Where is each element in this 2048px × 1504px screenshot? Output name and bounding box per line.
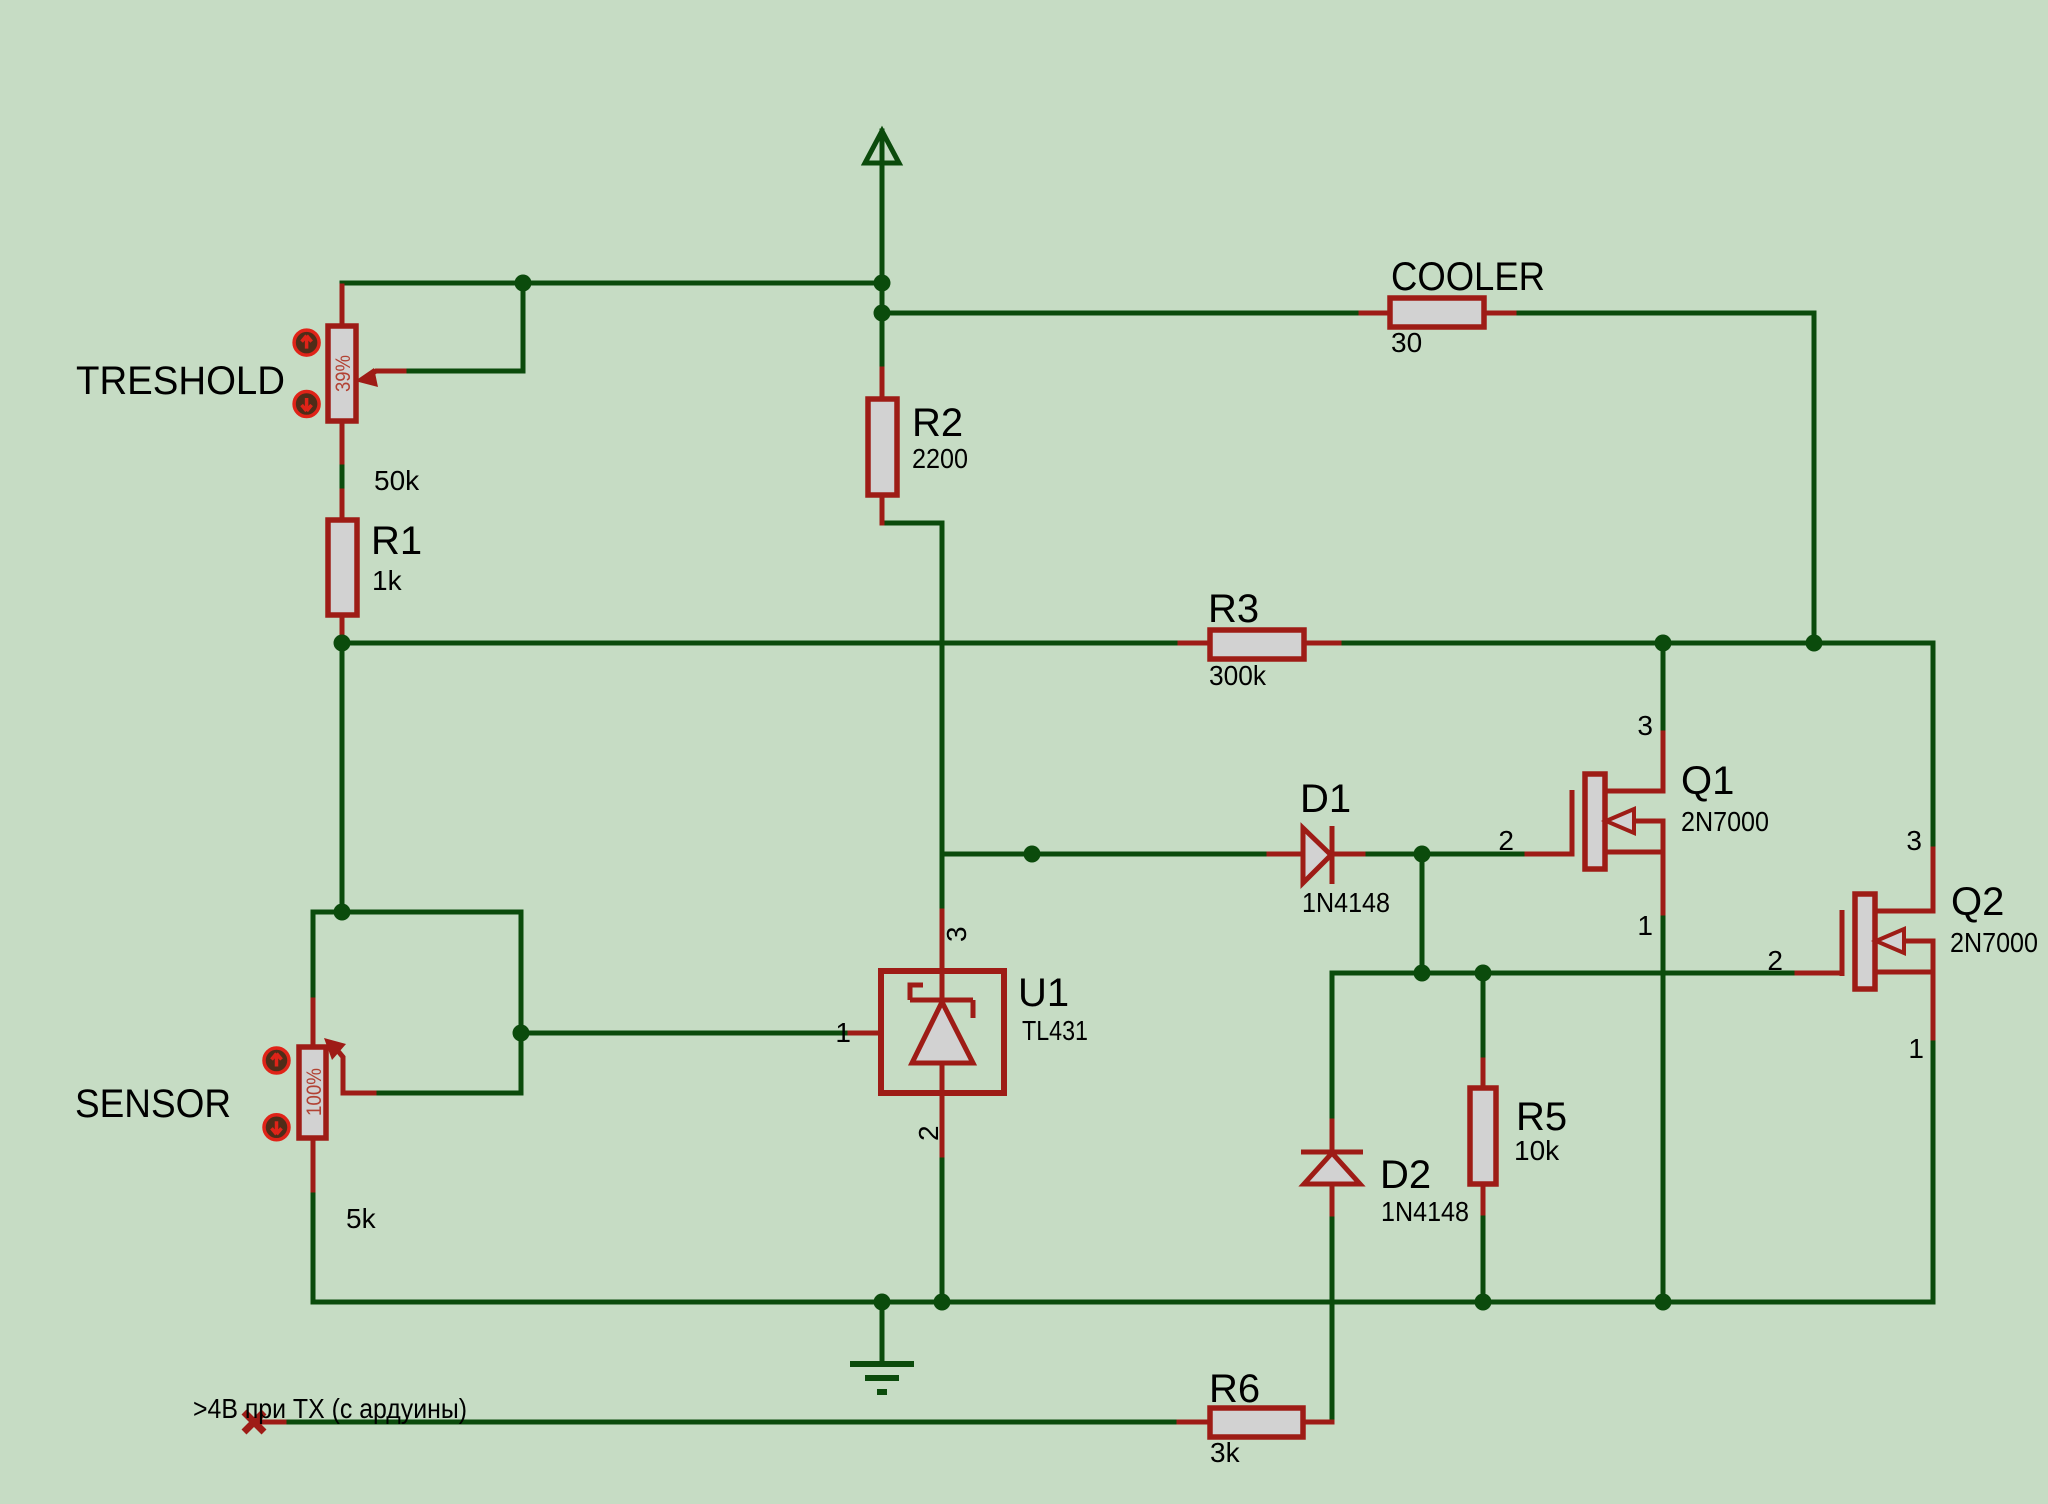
svg-text:R2: R2 [912,401,963,445]
wire U1 pin1 to SENSOR loop [521,1031,850,1036]
svg-text:1: 1 [1637,910,1653,941]
wire D1 cathode down to gate bus [1420,854,1425,973]
wire COOLER right to corner down to R3 bus [1514,313,1814,643]
transistor Q2 2N7000 symbol [1842,894,1904,989]
svg-text:3k: 3k [1210,1437,1241,1468]
junction ground bus / Q1 source [1655,1294,1672,1311]
wire SENSOR loop (top terminal and wiper ring) [313,912,521,1093]
pin stub D2 anode [1330,1184,1335,1214]
wire SENSOR bottom to ground bus [311,1190,316,1302]
pin stub R3 right [1304,641,1339,646]
wire input TX line [284,1420,1179,1425]
wire U1 pin3 branch to D1 anode [942,852,1269,857]
diode D2 1N4148 symbol [1301,1152,1363,1184]
pin stub Q1 gate [1527,852,1572,857]
wire TRESHOLD bottom to R1 top [340,462,345,491]
pin stub TRESHOLD top [340,286,345,326]
pin stub R1 top [340,491,345,520]
svg-text:2: 2 [913,1125,944,1141]
svg-text:2N7000: 2N7000 [1950,927,2038,958]
wire ground bus [313,1300,1933,1305]
pin stub Q1 drain [1604,733,1663,791]
wire from TRESHOLD wiper to top rail [404,283,523,371]
pin stub TRESHOLD bottom [340,421,345,462]
svg-text:100%: 100% [303,1068,326,1116]
junction top rail / power rail [874,275,891,292]
resistor R1 body [328,520,357,615]
resistor R6 body [1210,1408,1303,1437]
ground symbol [850,1364,914,1392]
diode D1 1N4148 symbol [1303,826,1332,884]
svg-text:50k: 50k [374,465,420,496]
pin stub R6 left [1179,1420,1210,1425]
potentiometer RV1 TRESHOLD body [328,326,356,421]
wire top rail from TRESHOLD top to power rail [342,281,882,286]
potentiometer RV2 SENSOR body [299,1047,326,1138]
pin stub Q1 source [1604,821,1663,913]
resistor R2 body [868,399,897,495]
pin stub COOLER right [1484,311,1514,316]
svg-text:U1: U1 [1018,971,1069,1015]
pin stub R5 top [1481,1060,1486,1088]
pin stub SENSOR wiper tail [338,1051,374,1093]
svg-text:3: 3 [1906,825,1922,856]
resistor R3 body [1210,630,1304,659]
pin stub U1 pin3 [940,911,945,971]
svg-text:1k: 1k [372,565,403,596]
svg-text:5k: 5k [346,1203,377,1234]
svg-text:39%: 39% [332,355,355,392]
wire R5 top to gate bus [1481,973,1486,1060]
svg-text:SENSOR: SENSOR [75,1082,231,1126]
pin stub Q1 bulk arrow lead [1634,819,1663,824]
pin stub SENSOR top [311,1000,316,1047]
svg-text:2: 2 [1498,825,1514,856]
pin stub R2 bottom [880,495,885,523]
junction gate bus / R5 top [1475,965,1492,982]
button SENSOR down [264,1115,289,1140]
pin stub Q2 source [1874,941,1933,1038]
junction power rail / COOLER wire [874,305,891,322]
pin stub R1 bottom [340,615,345,641]
svg-text:TRESHOLD: TRESHOLD [76,359,285,403]
pin stub D2 cathode [1330,1121,1335,1152]
pin stub input terminal [254,1420,284,1425]
potentiometer SENSOR wiper arrowhead [324,1038,346,1060]
junction ground bus / ground symbol [874,1294,891,1311]
pin stub R3 left [1180,641,1210,646]
junction gate bus / D1 branch [1414,965,1431,982]
power symbol VCC arrow [865,131,899,369]
transistor Q1 2N7000 symbol [1572,774,1634,869]
wire D2 anode down to R6 right [1330,1214,1335,1422]
svg-text:2N7000: 2N7000 [1681,806,1769,837]
pin stub SENSOR bottom [311,1138,316,1190]
wire left vertical R1 junction to SENSOR loop [340,643,345,912]
svg-text:R3: R3 [1208,587,1259,631]
wire Q2 source to ground bus corner [1931,1038,1936,1302]
svg-text:3: 3 [941,926,972,942]
junction R3 bus / Q1 drain [1655,635,1672,652]
svg-text:1N4148: 1N4148 [1381,1196,1469,1227]
svg-text:R5: R5 [1516,1095,1567,1139]
svg-text:R6: R6 [1209,1367,1260,1411]
junction R1 bottom / R3 bus [334,635,351,652]
pin stub R6 right [1303,1420,1332,1425]
svg-text:Q2: Q2 [1951,880,2004,924]
pin stub U1 pin2 [940,1093,945,1155]
svg-text:1: 1 [1908,1033,1924,1064]
wire Q1 source to ground bus [1661,913,1666,1302]
svg-text:300k: 300k [1209,660,1267,691]
resistor R5 body [1470,1088,1496,1184]
wire R3 bus right to corner down to Q2 drain [1339,643,1933,849]
pin stub R5 bottom [1481,1184,1486,1213]
junction D1 cathode / gate branch [1414,846,1431,863]
svg-text:R1: R1 [371,519,422,563]
svg-text:10k: 10k [1514,1135,1560,1166]
pin stub U1 pin1 [850,1031,881,1036]
button SENSOR up [264,1048,289,1073]
pin stub COOLER left [1361,311,1390,316]
U1 TL431 internal symbol [910,971,973,1093]
resistor COOLER body [1390,298,1484,327]
junction top rail / wiper wire [515,275,532,292]
svg-text:>4В при ТХ (с ардуины): >4В при ТХ (с ардуины) [193,1393,467,1424]
wire ground symbol stem [880,1302,885,1360]
wire R5 bottom to ground bus [1481,1213,1486,1302]
pin stub Q2 gate [1797,971,1842,976]
svg-text:D2: D2 [1380,1153,1431,1197]
pin stub D1 anode [1269,852,1303,857]
wire D1 cathode to Q1 gate [1363,852,1527,857]
svg-text:2200: 2200 [912,443,968,474]
wire R2 bottom to U1 pin3 vertical [882,523,942,911]
svg-text:1: 1 [835,1017,851,1048]
junction D1 anode wire [1024,846,1041,863]
svg-text:COOLER: COOLER [1391,255,1545,299]
wire U1 pin2 to ground bus [940,1155,945,1302]
wire R2 top from power rail [880,313,885,369]
pin stub Q2 bulk arrow lead [1904,939,1933,944]
pin stub Q2 drain [1874,849,1933,911]
wire R3 bus left (R1 bottom to R3) [342,641,1180,646]
IC U1 TL431 box [881,971,1004,1093]
svg-text:3: 3 [1637,710,1653,741]
wire gate bus to Q2 gate [1332,971,1797,976]
svg-text:Q1: Q1 [1681,759,1734,803]
potentiometer TRESHOLD wiper arrowhead [355,368,378,387]
pin stub TRESHOLD wiper tail [368,371,404,376]
svg-text:1N4148: 1N4148 [1302,887,1390,918]
button TRESHOLD down [294,392,319,417]
junction ground bus / U1 pin2 [934,1294,951,1311]
junction ground bus / R5 bottom [1475,1294,1492,1311]
svg-text:D1: D1 [1300,777,1351,821]
svg-text:2: 2 [1767,945,1783,976]
junction R3 bus / COOLER corner [1806,635,1823,652]
terminal X marker input [244,1412,264,1432]
pin stub R2 top [880,369,885,399]
button TRESHOLD up [294,330,319,355]
junction SENSOR loop / U1 pin1 wire [513,1025,530,1042]
wire gate bus left end down to D2 cathode [1330,973,1335,1121]
wire power rail to COOLER left [882,311,1361,316]
pin stub D1 cathode [1332,852,1363,857]
svg-text:30: 30 [1391,327,1422,358]
svg-text:TL431: TL431 [1022,1015,1088,1046]
junction left vertical / SENSOR loop [334,904,351,921]
wire Q1 drain to R3 bus [1661,643,1666,733]
